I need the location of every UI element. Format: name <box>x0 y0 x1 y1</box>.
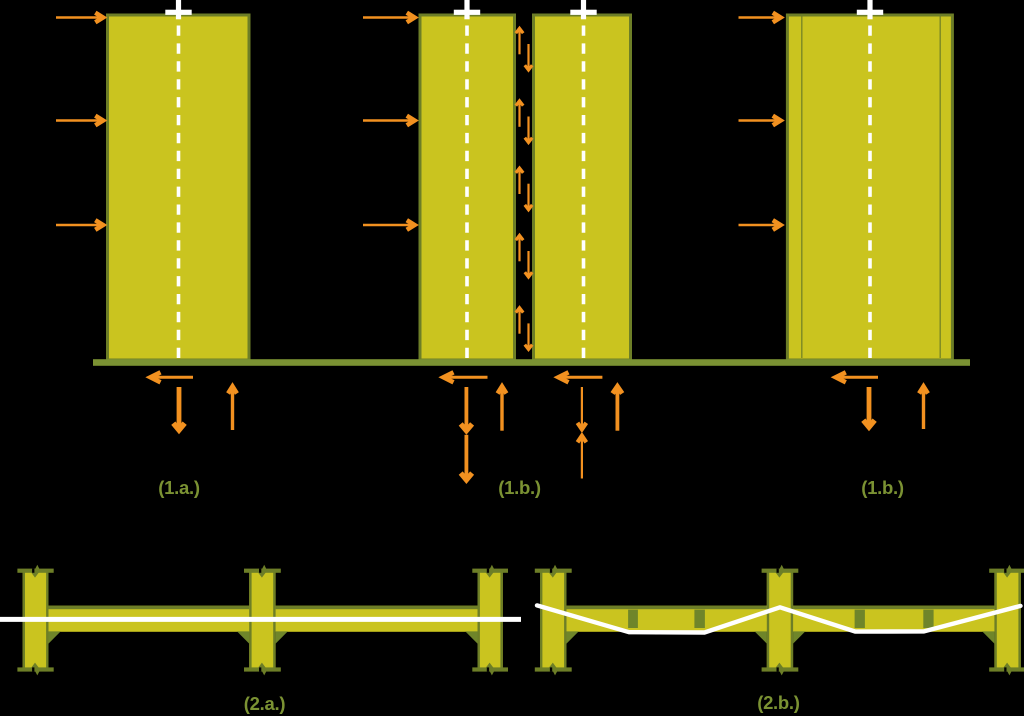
shear wall 2 right pier (diagram 1.b) <box>534 15 631 360</box>
tension reaction arrow (down) wall 1 <box>173 387 184 430</box>
load point marker (plus) wall 3 <box>857 0 883 19</box>
joint shear arrow pair 3 down <box>525 184 532 210</box>
column 2 (2.b) <box>767 569 793 672</box>
column 1 (2.a) <box>23 569 49 672</box>
compression arrow (up) left pier <box>498 387 507 431</box>
load point marker (plus) wall 2 right <box>570 0 596 19</box>
joint shear arrow pair 5 down <box>525 323 532 349</box>
centerline dashed wall 2 left <box>465 26 469 359</box>
plastic hinge marker 2 (2.b) <box>694 610 705 628</box>
base shear arrow left pier <box>444 372 488 382</box>
plastic mechanism deflection line (zigzag, 2.b) <box>537 605 1021 632</box>
load point marker (plus) wall 2 left <box>454 0 480 19</box>
lateral load arrow 3 on wall 1 <box>56 220 103 230</box>
flange line left wall 3 <box>801 16 803 358</box>
column 1 top break mark (2.b) <box>535 565 572 578</box>
column 2 (2.a) <box>249 569 275 672</box>
joint shear arrow pair 2 up <box>516 101 523 127</box>
column 1 top break mark (2.a) <box>17 565 53 578</box>
centerline dashed wall 1 <box>177 26 181 359</box>
base shear arrow wall 3 <box>836 372 878 382</box>
shear wall 2 left pier (diagram 1.b) <box>420 15 515 360</box>
axial arrow (down) right pier <box>578 387 587 429</box>
centerline dashed wall 2 right <box>582 26 586 359</box>
beam span 2 (2.a) <box>273 606 480 632</box>
shear wall 3 (diagram 1.b right) <box>787 15 952 360</box>
svg-text:(2.b.): (2.b.) <box>757 692 800 713</box>
beam span 2 (2.b) <box>791 606 996 632</box>
joint shear arrow pair 1 up <box>516 28 523 54</box>
svg-text:(2.a.): (2.a.) <box>244 693 286 714</box>
column 3 top break mark (2.b) <box>989 565 1024 578</box>
column 3 top break mark (2.a) <box>472 565 508 578</box>
joint shear arrow pair 5 up <box>516 308 523 334</box>
haunch right of column 2 (2.b) <box>793 631 805 643</box>
haunch right of column 1 (2.b) <box>567 631 579 643</box>
lateral load arrow 2 on wall 2 <box>363 116 415 126</box>
column 3 (2.b) <box>994 569 1020 672</box>
base shear arrow right pier <box>559 372 603 382</box>
joint shear arrow pair 4 down <box>525 251 532 277</box>
tension arrow 1 (down) left pier <box>461 387 472 431</box>
compression reaction arrow (up) wall 1 <box>228 387 237 431</box>
lateral load arrow 2 on wall 1 <box>56 116 103 126</box>
load application point marker (plus) wall 1 <box>165 0 191 19</box>
lateral load arrow 1 on wall 3 <box>739 13 781 23</box>
haunch left of column 3 (2.a) <box>465 631 477 643</box>
lateral load arrow 2 on wall 3 <box>739 116 781 126</box>
joint shear arrow pair 4 up <box>516 235 523 261</box>
lateral load arrow 3 on wall 2 <box>363 220 415 230</box>
haunch left of column 2 (2.b) <box>755 631 767 643</box>
column 2 top break mark (2.b) <box>762 565 799 578</box>
joint shear arrow pair 2 down <box>525 117 532 143</box>
elastic deflection line (straight, 2.a) <box>0 617 521 622</box>
column 3 bottom break mark (2.a) <box>472 663 508 676</box>
column 3 bottom break mark (2.b) <box>989 663 1024 676</box>
haunch left of column 3 (2.b) <box>982 631 994 643</box>
column 2 bottom break mark (2.a) <box>244 663 281 676</box>
column 1 (2.b) <box>540 569 567 672</box>
column 1 bottom break mark (2.b) <box>535 663 572 676</box>
column 3 (2.a) <box>478 569 503 672</box>
lateral load arrow 1 on wall 2 <box>363 13 415 23</box>
svg-text:(1.a.): (1.a.) <box>158 477 200 498</box>
base shear arrow (left) wall 1 <box>151 372 194 382</box>
plastic hinge marker 4 (2.b) <box>923 610 933 628</box>
column 2 top break mark (2.a) <box>244 565 281 578</box>
ground / foundation line <box>93 359 970 366</box>
svg-text:(1.b.): (1.b.) <box>861 477 904 498</box>
flange line right wall 3 <box>939 16 941 358</box>
compression arrow (up) right pier <box>613 387 623 431</box>
haunch right of column 1 (2.a) <box>49 631 61 643</box>
compression arrow (up) wall 3 <box>919 387 928 430</box>
svg-text:(1.b.): (1.b.) <box>498 477 541 498</box>
joint shear arrow pair 3 up <box>516 168 523 194</box>
beam span 1 (2.a) <box>46 606 252 632</box>
axial arrow (up from below) right pier <box>578 436 587 479</box>
joint shear arrow pair 1 down <box>525 44 532 70</box>
haunch right of column 2 (2.a) <box>276 631 288 643</box>
lateral load arrow 1 on wall 1 <box>56 13 103 23</box>
tension arrow (down) wall 3 <box>863 387 874 427</box>
shear wall 1 (diagram 1.a) <box>108 15 250 360</box>
beam span 1 (2.b) <box>564 606 769 632</box>
tension arrow 2 (down) left pier <box>461 435 472 480</box>
haunch left of column 2 (2.a) <box>237 631 249 643</box>
centerline dashed wall 3 <box>868 26 872 359</box>
plastic hinge marker 1 (2.b) <box>628 610 638 628</box>
lateral load arrow 3 on wall 3 <box>739 220 781 230</box>
column 1 bottom break mark (2.a) <box>17 663 53 676</box>
column 2 bottom break mark (2.b) <box>762 663 799 676</box>
plastic hinge marker 3 (2.b) <box>855 610 865 628</box>
